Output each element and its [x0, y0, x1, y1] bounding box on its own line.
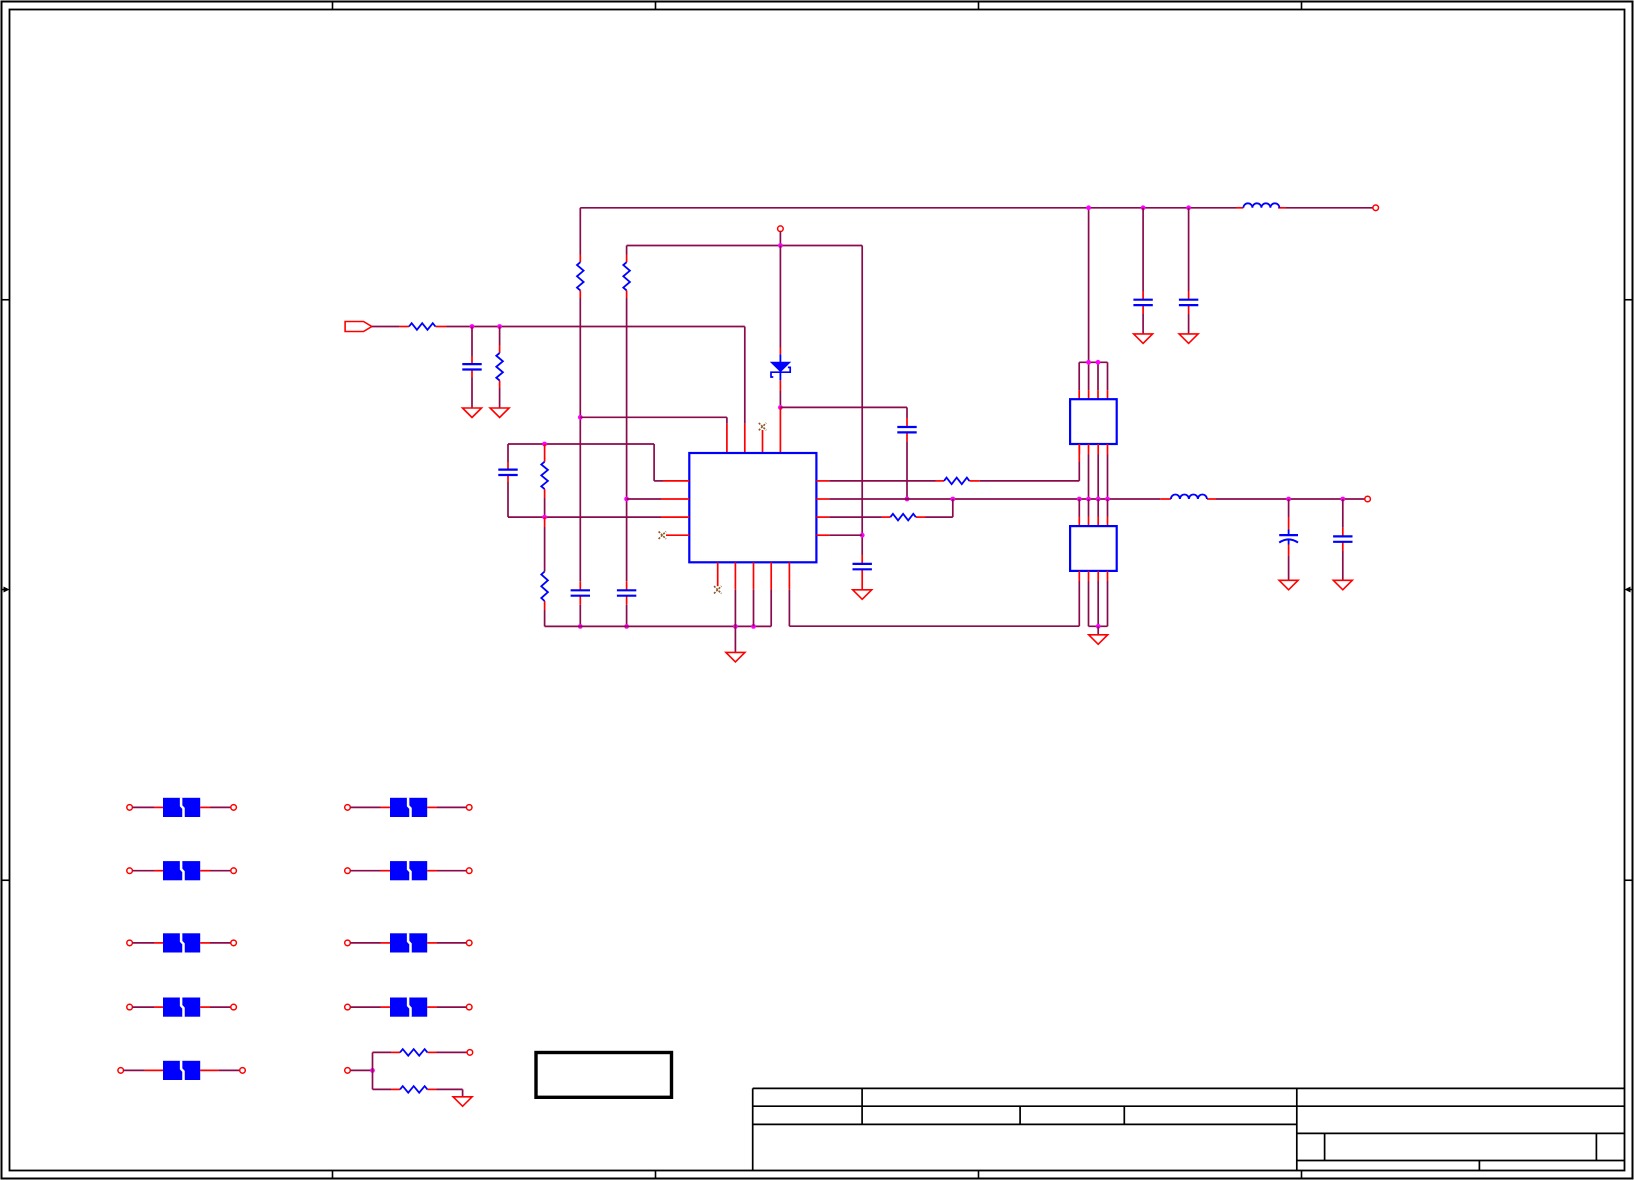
capacitor C2 — [498, 470, 517, 475]
pin circle right of FB1 — [231, 805, 237, 811]
wire OUT to C7 — [1288, 499, 1290, 517]
wire FB7 left — [350, 870, 380, 872]
wire pin4 to x=862 node — [829, 534, 862, 536]
node C junction (372.5,1070.4) — [370, 1068, 375, 1073]
resistor R5 — [541, 462, 548, 489]
annotation box — [536, 1053, 672, 1098]
ferrite bead FB6 — [390, 798, 427, 818]
net OUT wire — [829, 498, 1160, 500]
L1 lead red segments — [1160, 498, 1216, 500]
ferrite bead FB1 — [163, 798, 200, 818]
C2 lead red segments — [507, 462, 509, 482]
ground G7 — [1179, 334, 1198, 344]
wire FB4 right — [210, 1006, 231, 1008]
inductor L2 — [1243, 203, 1279, 207]
connector J2 — [1070, 526, 1117, 571]
connector J1 — [1070, 399, 1117, 444]
node junction (1088.6,362.3) — [1086, 360, 1091, 365]
wire R8 corner to OUT — [926, 499, 953, 517]
ground G8 — [1279, 580, 1298, 590]
pin circle left of FB1 — [127, 805, 133, 811]
wire R6 upper lead — [544, 527, 546, 572]
wire pin2 to rail — [734, 590, 736, 627]
IC bottom pin 4 red segment — [770, 562, 772, 590]
right edge centre arrow — [1625, 587, 1633, 593]
wire FB1 right — [210, 806, 231, 808]
pin circle left of FB8 — [345, 940, 351, 946]
C10 lead red segments — [1188, 291, 1190, 314]
pin circle right of FB4 — [231, 1004, 237, 1010]
capacitor C6 — [853, 564, 872, 569]
capacitor C4 — [617, 590, 636, 595]
wire zener node to C5 — [780, 407, 907, 418]
wire R1 to node A — [447, 326, 745, 328]
resistor R7 — [944, 478, 969, 485]
pin circle left of FB6 — [345, 805, 351, 811]
IC top pin 2 red segment — [744, 424, 746, 453]
J1 bottom pins red segments — [1079, 444, 1107, 455]
wire R7 to J1 pin1 — [980, 462, 1080, 481]
resistor R2 — [496, 353, 503, 381]
wire C5 down to net OUT — [906, 441, 908, 499]
IC bottom pin 3 red segment — [753, 562, 755, 589]
left edge centre arrow — [2, 587, 10, 593]
node junction (580.3,626.4) — [578, 624, 583, 629]
node junction (753.5,626.4) — [751, 624, 756, 629]
node C branch wires — [373, 1052, 392, 1089]
wire rail to R3 — [579, 208, 581, 255]
wire C10 to ground — [1188, 314, 1190, 334]
wire L2 to pin P3 — [1286, 207, 1373, 209]
node junction (780.4,407.4) — [778, 405, 783, 410]
IC left pin 3 red segment — [661, 516, 689, 518]
wire C2 top lead — [507, 444, 509, 462]
wire P5 to node C — [350, 1069, 372, 1071]
node junction (1088.6,207.8) — [1086, 205, 1091, 210]
R1 lead red segments — [399, 326, 447, 328]
ferrite bead FB8 — [390, 933, 427, 953]
ferrite bead FB5 — [163, 1061, 200, 1081]
wire pin to junction — [779, 232, 781, 246]
pin circle left of FB5 — [118, 1068, 124, 1074]
wire FB6 right — [437, 806, 466, 808]
FB6 lead red segments — [381, 806, 438, 808]
wire C2 bottom to net B — [508, 482, 661, 517]
ground G9 — [1333, 580, 1352, 590]
FB3 lead red segments — [154, 942, 210, 944]
no-connect X on IC top pin 3 — [759, 423, 766, 430]
wire R2 to ground — [499, 388, 501, 408]
C6 lead red segments — [861, 555, 863, 590]
wire FB1 left — [132, 806, 154, 808]
R8 lead red segments — [882, 516, 926, 518]
node junction (544.6,444) — [542, 442, 547, 447]
wire FB5 right — [219, 1069, 240, 1071]
R7 lead red segments — [936, 480, 980, 482]
ground G1 — [463, 408, 482, 418]
top rail wire — [580, 207, 1236, 209]
IC U1 — [689, 453, 816, 562]
IC left pin 2 red segment — [661, 498, 689, 500]
pin circle right of FB7 — [466, 868, 472, 874]
wire FB3 left — [132, 942, 154, 944]
wire FB9 right — [437, 1006, 466, 1008]
resistor R10 — [400, 1086, 427, 1093]
R3 lead red segments — [579, 255, 581, 299]
pin P2 open circle — [778, 226, 784, 232]
wire R9 to pin P6 — [437, 1051, 468, 1053]
D1 lead red segments — [779, 348, 781, 392]
IC left pin 4 red segment — [666, 534, 689, 536]
node junction (1098.0,362.3) — [1096, 360, 1101, 365]
pin circle right of FB3 — [231, 940, 237, 946]
ground G4 — [853, 590, 872, 600]
wire left net A (y=444) — [508, 444, 663, 481]
FB2 lead red segments — [154, 870, 210, 872]
wire rail to J1 bracket — [1088, 208, 1090, 362]
capacitor C9 — [1133, 300, 1152, 305]
wire rail to ground G3 — [734, 626, 736, 652]
node junction (1098.2,499) — [1096, 497, 1101, 502]
ferrite bead FB4 — [163, 997, 200, 1017]
node junction (1107.5,499) — [1105, 497, 1110, 502]
ground G2 — [490, 408, 509, 418]
resistor R3 — [577, 262, 584, 290]
ferrite bead FB7 — [390, 861, 427, 881]
wire FB8 right — [437, 942, 466, 944]
J1 top pins red segments — [1079, 390, 1107, 399]
pin circle left of FB2 — [127, 868, 133, 874]
wire pin3 to R8 — [829, 516, 882, 518]
pin P4 open circle — [1365, 496, 1371, 502]
resistor R4 — [623, 262, 630, 290]
C3 lead red segments — [579, 581, 581, 604]
wire C8 to ground — [1342, 551, 1344, 580]
J2 bottom pins red segments — [1079, 571, 1107, 581]
pin circle right of FB5 — [240, 1068, 246, 1074]
wire node to IC pin1 — [580, 417, 727, 423]
IC bottom pin 2 red segment — [734, 562, 736, 589]
FB7 lead red segments — [381, 870, 438, 872]
capacitor C5 — [897, 427, 916, 432]
node junction (780.4,245.5) — [778, 243, 783, 248]
pin circle P5 — [345, 1068, 351, 1074]
wire FB2 left — [132, 870, 154, 872]
pin circle left of FB3 — [127, 940, 133, 946]
IC top pin 4 red segment — [779, 407, 781, 453]
IC right pin 4 red segment — [816, 534, 829, 536]
node junction (1143.1,207.8) — [1141, 205, 1146, 210]
R5 lead red segments — [544, 444, 546, 498]
wire C9 to ground — [1142, 314, 1144, 334]
ground G10 — [453, 1097, 472, 1107]
J2 top pin wires from OUT — [1079, 499, 1107, 517]
FB4 lead red segments — [154, 1006, 210, 1008]
wire rail to C9 — [1142, 208, 1144, 291]
R9 lead red segments — [391, 1051, 437, 1053]
R6 lead red segments — [544, 517, 546, 610]
capacitor C8 — [1333, 536, 1352, 541]
J2 top pins red segments — [1079, 517, 1107, 527]
IC right pin 2 red segment — [816, 498, 829, 500]
node junction (735.4,626.4) — [733, 624, 738, 629]
wire R3 down to C3 — [579, 298, 581, 626]
wire D1 to junction — [779, 391, 781, 405]
C5 lead red segments — [906, 418, 908, 441]
wire node A to C1 — [471, 327, 473, 357]
wire port to R1 — [372, 326, 399, 328]
wire FB4 left — [132, 1006, 154, 1008]
node junction (580.3,417.3) — [578, 415, 583, 420]
J1 bottom pin 1 red segment — [1078, 444, 1080, 462]
wire to ground G5 — [1097, 626, 1099, 635]
pin circle right of FB9 — [466, 1004, 472, 1010]
wire node B to R2 — [499, 327, 501, 346]
wire node to IC pin (x=744.8) — [744, 327, 746, 424]
C1 lead red segments — [471, 356, 473, 378]
wire R6 to bottom rail corner — [544, 610, 546, 626]
title block — [753, 1088, 1625, 1170]
polarized capacitor C7 — [1279, 530, 1298, 545]
no-connect X on IC left pin 4 — [659, 532, 666, 539]
node B junction (499.6,326.5) — [497, 324, 502, 329]
R10 lead red segments — [391, 1088, 437, 1090]
capacitor C3 — [571, 590, 590, 595]
ground G3 — [726, 652, 745, 662]
ground G6 — [1134, 334, 1153, 344]
port P1 (input) — [345, 322, 372, 332]
R4 lead red segments — [626, 255, 628, 299]
zener diode D1 — [771, 354, 790, 380]
node junction (1188.6,207.8) — [1186, 205, 1191, 210]
pin circle left of FB4 — [127, 1004, 133, 1010]
IC top pin 1 red segment — [726, 424, 728, 453]
IC left pin 2 wire — [627, 498, 661, 500]
pin circle left of FB9 — [345, 1004, 351, 1010]
node junction (544.6,517.1) — [542, 515, 547, 520]
node junction (626.6,499.0) — [624, 497, 629, 502]
wire x=862 vertical — [861, 246, 863, 555]
wire FB6 left — [350, 806, 380, 808]
node junction (1088.5,499) — [1086, 497, 1091, 502]
capacitor C1 — [462, 364, 481, 369]
IC bottom pin 1 red segment — [717, 562, 719, 586]
L2 lead red segments — [1236, 207, 1286, 209]
node junction (862.2,535.2) — [860, 533, 865, 538]
node junction (907,499) — [905, 497, 910, 502]
inductor L1 — [1171, 495, 1207, 499]
no-connect X on IC bottom pin 1 — [714, 586, 721, 593]
wire FB2 right — [210, 870, 231, 872]
resistor R9 — [400, 1049, 427, 1056]
FB9 lead red segments — [381, 1006, 438, 1008]
R2 lead red segments — [499, 345, 501, 388]
node junction (1342.8,499) — [1340, 497, 1345, 502]
wire R10 to ground — [437, 1089, 463, 1096]
wire FB3 right — [210, 942, 231, 944]
capacitor C10 — [1179, 300, 1198, 305]
wire R5 to net B — [544, 498, 546, 517]
wire pin3 to rail — [753, 590, 755, 627]
IC bottom pin 5 red segment — [788, 562, 790, 589]
resistor R6 — [541, 572, 548, 602]
wire FB7 right — [437, 870, 466, 872]
IC right pin 3 red segment — [816, 516, 829, 518]
wire R4 down to C4 — [626, 298, 628, 626]
wire junction to D1 — [779, 246, 781, 348]
wire FB9 left — [350, 1006, 380, 1008]
pin circle right of FB2 — [231, 868, 237, 874]
C7 lead red segments — [1288, 517, 1290, 556]
node A junction (472,326.5) — [470, 324, 475, 329]
wire C7 to ground — [1288, 556, 1290, 580]
wire pin1 to R7 — [829, 480, 935, 482]
wire y=245.5 — [627, 245, 863, 247]
wire C1 to ground — [471, 378, 473, 409]
node junction (952.8,499) — [950, 497, 955, 502]
IC top pin 3 red segment — [762, 430, 764, 453]
node junction (626.6,626.4) — [624, 624, 629, 629]
C4 lead red segments — [626, 581, 628, 604]
J2 bottom pin wires — [1079, 581, 1107, 626]
C9 lead red segments — [1142, 291, 1144, 314]
ferrite bead FB3 — [163, 933, 200, 953]
resistor R8 — [890, 514, 915, 521]
J1 bottom pin wires to OUT — [1089, 455, 1108, 500]
pin circle right of FB8 — [466, 940, 472, 946]
ground G5 — [1089, 635, 1108, 645]
FB1 lead red segments — [154, 806, 210, 808]
wire OUT to C8 — [1342, 499, 1344, 528]
bottom rail right — [789, 590, 1079, 627]
ferrite bead FB2 — [163, 861, 200, 881]
C8 lead red segments — [1342, 528, 1344, 551]
wire FB8 left — [350, 942, 380, 944]
wire y245 corner down to R4 — [626, 246, 628, 255]
node junction (1288.6,499) — [1286, 497, 1291, 502]
pin circle left of FB7 — [345, 868, 351, 874]
resistor R1 — [409, 323, 435, 330]
ferrite bead FB9 — [390, 997, 427, 1017]
IC right pin 1 red segment — [816, 480, 829, 482]
node junction (1098.2,626.3) — [1096, 624, 1101, 629]
IC left pin 1 red segment — [663, 480, 689, 482]
pin circle P6 — [467, 1050, 473, 1056]
J1 bracket wire — [1079, 362, 1107, 390]
bottom rail left — [545, 590, 772, 626]
FB8 lead red segments — [381, 942, 438, 944]
node junction (1079.3,499) — [1077, 497, 1082, 502]
wire rail to C10 — [1188, 208, 1190, 291]
pin circle right of FB6 — [466, 805, 472, 811]
pin P3 open circle — [1373, 205, 1379, 211]
FB5 lead red segments — [145, 1069, 219, 1071]
wire L1 to pin P4 — [1216, 498, 1365, 500]
wire FB5 left — [124, 1069, 145, 1071]
